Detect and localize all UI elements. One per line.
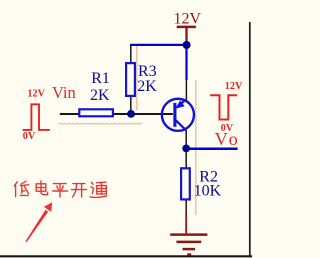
svg-text:Vin: Vin — [52, 83, 76, 102]
svg-text:10K: 10K — [194, 183, 222, 200]
svg-text:0V: 0V — [23, 131, 36, 142]
svg-text:R1: R1 — [91, 70, 110, 87]
svg-text:12V: 12V — [27, 89, 45, 100]
svg-text:2K: 2K — [137, 78, 157, 95]
svg-text:12V: 12V — [174, 11, 202, 28]
svg-text:o: o — [229, 129, 238, 149]
svg-text:V: V — [215, 129, 228, 149]
svg-text:12V: 12V — [225, 81, 243, 92]
svg-text:2K: 2K — [90, 87, 110, 104]
